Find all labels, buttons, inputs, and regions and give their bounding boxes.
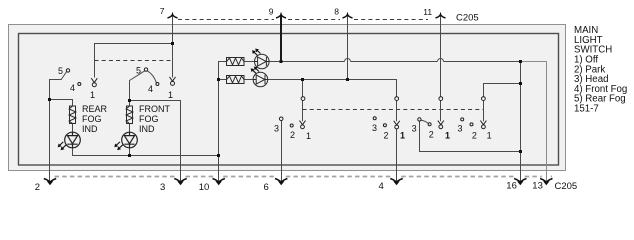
- svg-text:IND: IND: [82, 124, 98, 134]
- svg-text:FOG: FOG: [139, 114, 159, 124]
- svg-text:1: 1: [168, 90, 173, 100]
- svg-text:6: 6: [264, 182, 269, 193]
- svg-text:11: 11: [423, 7, 432, 17]
- svg-text:FOG: FOG: [82, 114, 102, 124]
- svg-text:3: 3: [458, 124, 463, 134]
- svg-text:7: 7: [160, 6, 165, 16]
- svg-text:16: 16: [506, 181, 517, 192]
- svg-text:4: 4: [148, 84, 153, 94]
- svg-text:1: 1: [487, 130, 492, 140]
- svg-text:2: 2: [290, 130, 295, 140]
- svg-text:C205: C205: [456, 13, 479, 24]
- svg-text:10: 10: [199, 182, 210, 193]
- svg-text:1: 1: [400, 130, 405, 140]
- svg-text:8: 8: [334, 7, 339, 17]
- svg-text:IND: IND: [139, 124, 155, 134]
- svg-text:1: 1: [90, 90, 95, 100]
- svg-text:3: 3: [412, 124, 417, 134]
- svg-text:4: 4: [70, 83, 75, 93]
- svg-text:2: 2: [35, 182, 40, 193]
- svg-text:3: 3: [274, 124, 279, 134]
- svg-text:3: 3: [160, 182, 165, 193]
- svg-text:5: 5: [136, 66, 141, 76]
- svg-text:2: 2: [429, 129, 434, 139]
- svg-text:3: 3: [372, 123, 377, 133]
- svg-text:FRONT: FRONT: [139, 104, 170, 114]
- svg-text:151-7: 151-7: [574, 104, 599, 115]
- svg-text:REAR: REAR: [82, 104, 108, 114]
- svg-text:1: 1: [445, 130, 450, 140]
- svg-text:C205: C205: [555, 181, 578, 192]
- svg-text:5: 5: [58, 66, 63, 76]
- svg-text:9: 9: [269, 7, 274, 17]
- svg-text:1: 1: [306, 131, 311, 141]
- svg-text:2: 2: [384, 130, 389, 140]
- svg-text:13: 13: [532, 181, 543, 192]
- svg-text:2: 2: [472, 130, 477, 140]
- svg-text:4: 4: [379, 181, 384, 192]
